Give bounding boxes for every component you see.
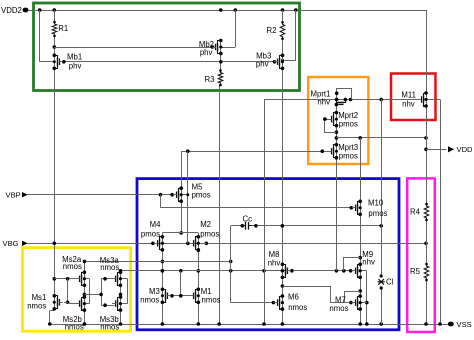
wire Ms3b source to rail [120, 310, 122, 324]
wire Ms1 gate lead to column [64, 302, 68, 304]
wire Ms2a source to Ms2b drain [84, 285, 86, 297]
svg-text:nhv: nhv [268, 259, 281, 268]
node rail M3 [161, 322, 165, 326]
svg-text:M4: M4 [150, 220, 161, 229]
node link M11-column junction [424, 136, 428, 140]
transistor M4 [141, 220, 164, 251]
wire Mprt2 column [336, 107, 338, 113]
wire VDD2 rail y=10 [29, 10, 427, 12]
node Ms3b gate dot [103, 303, 107, 307]
node Mprt1 gate descent dot [335, 103, 339, 107]
wire M8 drain from Mb3 column junctions [282, 263, 284, 265]
wire M6 gate line from Cc vertical [231, 302, 277, 304]
resistor R5 [410, 263, 429, 282]
node M1 drain H2 junction [197, 269, 201, 273]
wire Ms2b source to rail [84, 310, 86, 324]
node R1-Mb2gate junction [53, 45, 57, 49]
svg-text:pmos: pmos [200, 230, 219, 239]
orange box (Mprt protection group) [308, 77, 368, 164]
node rail Ms1 [48, 322, 52, 326]
wire M3-M1 gate line y=295.8 [169, 295, 193, 297]
node Mprt2 gate dot [323, 117, 327, 121]
node Ms3a drain H2 start [119, 269, 123, 273]
svg-text:pmos: pmos [339, 152, 358, 161]
wire Cl column from M11 gate line down to Cc line [381, 100, 383, 226]
node H1 end at Cc vertical [229, 260, 233, 264]
wire Ms3a source to Ms3b drain [120, 285, 122, 297]
node Mprt2 loop junction [335, 130, 339, 134]
node Mprt3 gate dot [321, 149, 325, 153]
svg-text:nmos: nmos [63, 262, 82, 271]
node M9 bulk mid dot [359, 269, 362, 272]
wire Mb3 drain down to crossing of Mprt1 line [282, 69, 284, 265]
blue box (amplifier core group) [137, 179, 399, 330]
node rail Cl [379, 322, 383, 326]
wire Cc line left lead [231, 225, 243, 227]
wire R3 bottom down to VSS rail [219, 85, 221, 324]
svg-text:R2: R2 [267, 26, 277, 35]
wire M5 drain down to tail node [181, 202, 183, 233]
node Ms3 gate column junction [99, 293, 103, 297]
yellow box (startup group) [23, 248, 131, 332]
transistor Mprt1 [311, 90, 348, 107]
wire Ms3a gate lead [101, 278, 114, 280]
svg-text:pmos: pmos [339, 119, 358, 128]
svg-text:nhv: nhv [362, 257, 375, 266]
node Ms3a gate dot [103, 277, 107, 281]
capacitor Cc [242, 215, 252, 230]
node M5 bulk junction [186, 193, 189, 196]
node M7 hook junction [358, 289, 362, 293]
node rail M7 [358, 322, 362, 326]
node tail T junction [179, 231, 183, 235]
wire Ms3 bulk bracket [127, 279, 129, 304]
svg-text:pmos: pmos [192, 191, 211, 200]
wire M10 feed column down from link [360, 138, 362, 202]
wire M8 source down to M6 [282, 277, 284, 296]
resistor R4 [410, 203, 429, 222]
node Mb3 bulk junction [281, 59, 284, 62]
wire Mprt1 gate down to Mprt2 [336, 104, 338, 107]
svg-text:pmos: pmos [368, 209, 387, 218]
wire Mprt2 to Mprt3 column [336, 125, 338, 144]
node VDD junction [424, 148, 428, 152]
wire M9 source down to M7 [360, 277, 362, 297]
resistor R1 [52, 21, 68, 38]
svg-text:M2: M2 [200, 220, 211, 229]
node VBG-Ms1 junction [53, 242, 57, 246]
node Ms2 mid link junction [83, 293, 87, 297]
wire Ms3b gate lead [101, 305, 114, 307]
node rail junction x220.8 [219, 8, 223, 12]
wire R1 bottom to Mb1 [54, 36, 56, 56]
node M8 gate dot [290, 269, 294, 273]
wire M6 source to VSS rail [282, 309, 284, 324]
node M9 hook gate junction [342, 269, 346, 273]
node M4-M3 H2 junction [161, 269, 165, 273]
transistor Ms3a [100, 256, 128, 287]
transistor Mprt3 [328, 143, 358, 161]
wire M7 diode hook [345, 292, 361, 303]
node Cc line M8 column junction [281, 224, 285, 228]
svg-text:phv: phv [69, 62, 82, 71]
port VDD2 [1, 6, 29, 15]
wire M10 drain down to M9 [360, 214, 362, 264]
wire Ms2a drain up to H1 [84, 261, 86, 272]
transistor Ms1 [27, 293, 63, 311]
port VBP [6, 190, 28, 199]
wire M7 source to VSS rail [360, 309, 362, 324]
transistor Ms2a [62, 255, 89, 287]
wire Cc line right side to Cl column [252, 225, 382, 227]
wire Ms2 bulk bracket [89, 279, 91, 304]
svg-text:phv: phv [256, 59, 269, 68]
svg-text:Cl: Cl [386, 278, 394, 287]
node rail junction x295.8 [294, 8, 298, 12]
wire M9 diode hook [344, 258, 361, 271]
node H2 M8 junction [281, 269, 285, 273]
wire Mprt1 diode loop [337, 89, 352, 100]
transistor Mb3 [256, 51, 284, 70]
wire VSS rail [50, 324, 450, 326]
node Ms2a gate dot [66, 277, 70, 281]
node rail M1 [197, 322, 201, 326]
wire M4 drain down to M3 [162, 250, 164, 290]
svg-text:VDD2: VDD2 [1, 6, 22, 15]
wire VBG feedback line from port through M4 M2 to R4R5 node [28, 243, 427, 245]
wire Cl bottom to VSS rail [381, 288, 383, 324]
wire tail rail to M4 and M2 tops [162, 232, 198, 234]
wire Mprt3 source column down to H2 [336, 158, 338, 271]
node Cc line Cl column junction [379, 224, 383, 228]
node rail M6 [281, 322, 285, 326]
svg-text:VBP: VBP [6, 190, 21, 199]
wire Mprt2 gate loop [325, 120, 337, 133]
wire Mprt1 line corner to M11 gate y=99.5 [264, 99, 420, 101]
wire M9 M7 bulk column to VSS rail [366, 271, 368, 324]
wire VDD stub to port [426, 149, 447, 151]
svg-text:R4: R4 [410, 208, 421, 217]
svg-text:nmos: nmos [288, 303, 307, 312]
wire H2 mirror line Ms3a to M9 gate y=270.8 [121, 270, 353, 272]
transistor M8 [268, 250, 291, 279]
transistor M1 [190, 287, 221, 305]
transistor M9 [352, 250, 375, 279]
node H2 mirror T [179, 269, 183, 273]
wire Mb2 drain down through R3 node [220, 54, 222, 71]
magenta box (R4 R5 divider group) [407, 178, 435, 332]
wire Ms1 diode to Ms2a gate line [54, 278, 78, 280]
svg-text:nmos: nmos [27, 301, 46, 310]
wire R4 to R5 segment [426, 220, 428, 264]
node mirror line T [179, 294, 183, 298]
wire R5 to VSS rail [426, 280, 428, 324]
svg-text:Mb1: Mb1 [67, 53, 82, 62]
node M4-M3 H1 junction [161, 260, 165, 264]
svg-text:M6: M6 [288, 293, 299, 302]
wire Mb2 bulk bracket from rail [235, 10, 237, 47]
wire M5 source column up from symbol [181, 151, 183, 188]
svg-text:nmos: nmos [65, 323, 84, 332]
node Cc right terminal [254, 224, 258, 228]
node M4 gate dot [151, 242, 155, 246]
svg-text:VBG: VBG [3, 239, 19, 248]
svg-text:nhv: nhv [317, 97, 330, 106]
wire M11 bulk column down to VSS rail [440, 100, 442, 325]
node Ms2a H1 start [83, 260, 87, 264]
svg-text:nmos: nmos [140, 296, 159, 305]
node M5 gate-lead dot [170, 193, 174, 197]
wire gate column x67.6 Ms2a to Ms2b [67, 279, 69, 304]
wire feedback vertical x=188 down to M2 gate [187, 151, 189, 243]
node Mprt1 line Cl-column junction [379, 98, 383, 102]
svg-text:nhv: nhv [402, 100, 415, 109]
node H2 x264 junction [262, 269, 266, 273]
wire M6 drain loop to M7 gate line [283, 287, 351, 303]
node rail Ms3b [119, 322, 123, 326]
node Mprt link junction [335, 136, 339, 140]
node M6 loop takeoff [281, 284, 285, 288]
wire M3 source to VSS rail [162, 302, 164, 324]
transistor M10 [352, 198, 388, 218]
resistor R3 [205, 69, 223, 86]
svg-text:pmos: pmos [141, 230, 160, 239]
transistor M3 [140, 287, 171, 305]
node Mb3 gate-lead dot [273, 60, 277, 64]
svg-text:nmos: nmos [202, 296, 221, 305]
transistor M11 [401, 91, 440, 109]
wire link Ms2 mid to Ms3 gates column [84, 294, 101, 296]
svg-text:R3: R3 [205, 75, 215, 84]
wire Mb1 bulk bracket from rail [39, 10, 41, 62]
node Mb2 drain to gate-line junction [219, 60, 223, 64]
svg-text:VSS: VSS [457, 320, 472, 329]
transistor M2 [190, 220, 220, 251]
node M9 hook top junction [358, 256, 362, 260]
svg-text:VDD: VDD [457, 145, 474, 154]
wire VBP branch down and right to M10 gate [160, 195, 162, 208]
transistor M6 [274, 293, 307, 313]
node Mb2 bulk junction [219, 46, 222, 49]
node H2 x162 [161, 269, 165, 273]
resistor R2 [267, 21, 285, 40]
svg-text:M11: M11 [401, 91, 416, 100]
transistor Mb2 [199, 39, 223, 58]
node Ms1 diode junction [53, 277, 57, 281]
node H2 Cc vertical junction [229, 269, 233, 273]
wire R2 top from rail [282, 10, 284, 22]
port VSS [448, 320, 472, 329]
node M10 gate dot [350, 206, 354, 210]
node rail x264 [262, 322, 266, 326]
node Cc left terminal [241, 224, 245, 228]
wire H1 Ms2a to Cc node y=261.4 [84, 261, 230, 263]
node Ms3 mid dot [119, 293, 123, 297]
wire M2 drain down to M1 [198, 250, 200, 290]
node Mprt1 right terminal dot [349, 98, 353, 102]
node feedback vertical top junction [186, 149, 190, 153]
node M2 bulk dot [205, 242, 209, 246]
wire VBP line from port to M5 gate [28, 194, 177, 196]
node M7 gate dot [349, 301, 353, 305]
wire Ms3 gate column x101.1 [101, 279, 103, 305]
svg-text:nmos: nmos [100, 263, 119, 272]
wire R1 node to Mb2 gate y=47 [54, 47, 214, 49]
wire Cl column down from Cc line [381, 226, 383, 276]
transistor Mb1 [53, 53, 83, 71]
node link M10-column junction [358, 136, 362, 140]
node Mb2 gate dot [211, 45, 215, 49]
node M9 gate-lead dot [349, 269, 353, 273]
red box (M11 group) [391, 74, 436, 121]
svg-text:R5: R5 [410, 267, 421, 276]
node M6 gate dot [272, 301, 276, 305]
svg-text:phv: phv [200, 48, 213, 57]
node rail junction x39.7 [38, 8, 42, 12]
svg-text:nmos: nmos [329, 304, 348, 313]
wire Mprt link to M11 column y=137.9 [336, 137, 426, 139]
wire R1 top from rail [54, 10, 56, 22]
wire mirror vertical to M3 M1 gates [180, 271, 182, 296]
green box (bias generator group) [34, 3, 300, 91]
svg-text:Cc: Cc [243, 215, 253, 224]
wire Mb3 bulk bracket from rail [295, 10, 297, 60]
capacitor Cl [378, 274, 394, 289]
node rail bulk column [365, 322, 369, 326]
node Mb1 gate dot [62, 60, 66, 64]
node rail junction x54.3 [53, 8, 57, 12]
svg-text:nmos: nmos [100, 323, 119, 332]
node rail junction x235.3 [234, 8, 238, 12]
transistor Mprt2 [328, 111, 358, 129]
node rail M11 bulk [438, 322, 442, 326]
transistor Ms3b [100, 295, 128, 331]
node bulk column M7 junction [365, 301, 369, 305]
node VBP branch junction [159, 193, 163, 197]
node Mprt3 column H2 junction [335, 269, 339, 273]
transistor Ms2b [63, 295, 90, 331]
wire M1 source to VSS rail [198, 302, 200, 324]
wire x264 column from Mprt1 line corner down to VSS rail [264, 100, 266, 325]
wire Cc node vertical x=230.7 [230, 226, 232, 303]
wire Mb1 gate to Mb3 gate y=61.8 [64, 61, 277, 63]
wire R3 jog [219, 85, 220, 87]
node Mprt1 loop gate dot [335, 92, 339, 96]
wire VDD2 rail corner down to M11 [426, 10, 428, 93]
wire R2 bottom to Mb3 [282, 39, 284, 56]
node M3 gate dot [170, 294, 174, 298]
node M2 drain dot [197, 248, 201, 252]
transistor M7 [329, 294, 366, 313]
wire Ms3a drain up to H2 [120, 271, 122, 273]
transistor M5 [173, 183, 211, 203]
port VBG [3, 239, 28, 248]
svg-text:R1: R1 [58, 24, 68, 33]
wire Ms2b gate lead [68, 303, 78, 305]
node M2 gate dot [186, 242, 190, 246]
wire Mprt3 gate line to M5 source top [181, 151, 330, 153]
node rail R3 column [217, 322, 221, 326]
node rail R5 [424, 322, 428, 326]
port VDD [448, 145, 473, 154]
wire Ms1 source hook to rail [54, 309, 56, 311]
svg-text:M10: M10 [368, 198, 384, 207]
node Ms1 gate junction [66, 301, 70, 305]
node rail Ms2b [83, 322, 87, 326]
wire Ms1 drain column diode tie [54, 279, 56, 296]
node R4R5 mid junction [424, 242, 428, 246]
wire Mb1 source down to VBG line [54, 68, 56, 279]
node rail junction x282.5 [281, 8, 285, 12]
wire M11 source down through VDD node into R4 [426, 106, 428, 204]
